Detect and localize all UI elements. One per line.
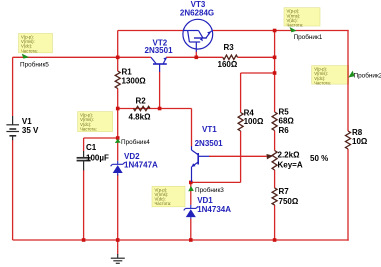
probe Пробник5 arrow: [22, 54, 29, 59]
wire ground stub: [117, 240, 119, 255]
svg-text:750Ω: 750Ω: [279, 197, 299, 206]
zener diode VD2 1N4747A: [111, 161, 125, 176]
svg-text:Пробник4: Пробник4: [121, 138, 150, 146]
junction output rail top: [273, 29, 277, 33]
battery V1 35V: [6, 116, 19, 140]
wire R1 bottom to R2 node: [117, 89, 119, 109]
wire R3 right to output rail: [238, 56, 275, 58]
svg-text:Пробник3: Пробник3: [195, 186, 224, 194]
svg-text:Пробник1: Пробник1: [294, 33, 323, 41]
wire top rail right (VT3 emitter to output): [213, 30, 349, 32]
wire right vertical upper (to R8): [347, 31, 349, 132]
wire right vertical lower (R8 to bottom rail): [347, 149, 349, 241]
svg-text:Частота:: Частота:: [80, 126, 97, 131]
transistor VT1 2N3501: [192, 146, 210, 182]
junction V1+ / R1 node: [116, 56, 120, 60]
svg-text:2.2kΩ: 2.2kΩ: [278, 151, 301, 160]
wire R2 node to VT1 collector corner: [118, 108, 192, 110]
svg-text:R8: R8: [352, 128, 363, 137]
probe Пробник4 arrow: [115, 139, 121, 143]
svg-text:10Ω: 10Ω: [352, 137, 368, 146]
wire C1 top to VD2 net: [84, 137, 118, 139]
wire VT1 emitter node to VD1: [190, 182, 192, 205]
junction R4 branch on output rail: [273, 71, 277, 75]
probe box Пробник3 info: [152, 186, 185, 207]
junction R7 on bottom rail: [273, 238, 277, 242]
svg-text:2N6284G: 2N6284G: [180, 8, 214, 17]
svg-text:Частота:: Частота:: [155, 201, 172, 206]
svg-text:R3: R3: [224, 43, 235, 52]
junction VD2-ground on bottom rail: [116, 238, 120, 242]
svg-text:2N3501: 2N3501: [195, 139, 224, 148]
resistor R5: [272, 112, 277, 131]
resistor R8: [346, 131, 351, 149]
wire R7 bottom to bottom rail: [274, 205, 276, 241]
svg-text:1300Ω: 1300Ω: [122, 76, 147, 85]
ground symbol: [111, 254, 125, 263]
wire R4 bottom lead down: [240, 131, 242, 182]
svg-text:50 %: 50 %: [310, 154, 328, 163]
svg-text:100Ω: 100Ω: [244, 117, 264, 126]
junction R1/R2/VD2 node: [116, 107, 120, 111]
svg-text:Частота:: Частота:: [314, 80, 331, 85]
wire VT2 emitter to R3 left: [166, 56, 223, 58]
wire left vertical upper (V1 + lead): [12, 57, 14, 116]
probe Пробник2 arrow: [348, 71, 354, 78]
svg-text:VD1: VD1: [197, 196, 213, 205]
probe Пробник1 arrow: [290, 27, 297, 32]
resistor R2: [134, 106, 151, 110]
resistor R1: [115, 71, 120, 89]
svg-text:VT1: VT1: [202, 125, 217, 134]
junction C1 / VD2 node: [116, 136, 120, 140]
wire VT3 base lead to node: [195, 52, 197, 58]
junction VD1 on bottom rail: [189, 238, 193, 242]
svg-text:160Ω: 160Ω: [218, 60, 238, 69]
svg-text:100µF: 100µF: [86, 154, 109, 163]
resistor R3: [223, 55, 238, 59]
wire output rail vertical to R5: [274, 31, 276, 113]
wire R5 bottom to R6 top: [274, 131, 276, 151]
svg-text:V1: V1: [22, 117, 32, 126]
wire top rail left (+35V to VT3 collector): [118, 30, 185, 32]
svg-text:R7: R7: [279, 187, 290, 196]
svg-text:C1: C1: [86, 143, 97, 152]
wire R6 bottom to R7 top: [274, 170, 276, 188]
wire branch to R4 top: [241, 72, 275, 74]
transistor VT3 2N6284G darlington: [183, 19, 213, 52]
svg-text:1N4747A: 1N4747A: [124, 160, 158, 169]
wire VD2 to bottom rail: [117, 174, 119, 240]
resistor R4: [238, 113, 243, 132]
svg-text:Key=A: Key=A: [278, 160, 303, 169]
junction C1 on bottom rail: [82, 238, 86, 242]
svg-text:Пробник2: Пробник2: [354, 72, 381, 80]
wire bottom rail (ground net): [13, 239, 349, 241]
svg-text:35 V: 35 V: [22, 126, 39, 135]
svg-text:R6: R6: [279, 126, 290, 135]
svg-text:4.8kΩ: 4.8kΩ: [129, 113, 152, 122]
probe box Пробник5 info: [19, 34, 53, 54]
junction VT2 base / R2 right: [158, 107, 162, 111]
svg-text:1N4734A: 1N4734A: [197, 205, 231, 214]
transistor VT2 2N3501: [151, 57, 167, 72]
probe Пробник3 arrow: [188, 186, 194, 191]
wire C1 top lead: [83, 138, 85, 151]
svg-text:68Ω: 68Ω: [279, 117, 295, 126]
junction VT1 emitter / R4 / VD1 node: [189, 181, 193, 185]
wire R4 bottom to VT1 emitter node: [191, 181, 241, 183]
svg-text:Частота:: Частота:: [21, 48, 38, 53]
junction VT3 base / R3 node: [195, 56, 199, 60]
capacitor C1 100µF: [77, 151, 91, 170]
probe box Пробник2 info: [312, 66, 349, 86]
resistor R7: [272, 188, 277, 205]
svg-text:R1: R1: [122, 68, 133, 77]
svg-text:Пробник5: Пробник5: [20, 61, 49, 69]
wire VD1 to bottom rail: [190, 219, 192, 240]
svg-text:Частота:: Частота:: [287, 23, 304, 28]
potentiometer R6: [272, 151, 277, 171]
junction R3 right on output rail: [273, 56, 277, 60]
probe box Пробник1 info: [284, 8, 320, 28]
wire R4 top lead: [240, 73, 242, 113]
svg-text:2N3501: 2N3501: [145, 46, 174, 55]
wire left vertical lower (V1 - lead): [12, 140, 14, 240]
svg-text:R2: R2: [136, 97, 147, 106]
wire VT1 base to R6 wiper: [209, 155, 267, 157]
wire x=117.7 top rail to R1 top: [117, 31, 119, 72]
probe box Пробник4 info: [78, 112, 113, 132]
wire V1+ to VT2 collector: [13, 56, 151, 58]
svg-text:R5: R5: [279, 108, 290, 117]
zener diode VD1 1N4734A: [184, 205, 198, 219]
wire down to VT1 collector: [191, 109, 193, 147]
wire C1 bottom lead: [83, 170, 85, 240]
wire VT2 base lead down: [159, 72, 161, 109]
wire R2 node down to VD2: [117, 109, 119, 161]
